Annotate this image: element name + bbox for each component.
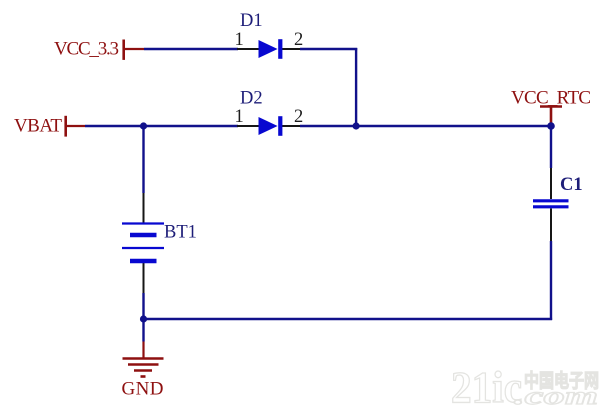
ground GND bbox=[122, 342, 164, 400]
junction node at branch/D2 output bbox=[353, 122, 360, 129]
diode D1 bbox=[237, 39, 300, 59]
diode D2 bbox=[237, 116, 300, 136]
svg-text:2: 2 bbox=[294, 107, 303, 127]
svg-text:D2: D2 bbox=[240, 88, 263, 108]
wire VBAT to D2 pin1 bbox=[85, 125, 238, 127]
svg-text:VCC_RTC: VCC_RTC bbox=[511, 87, 591, 108]
junction node VBAT/battery bbox=[140, 122, 147, 129]
power port VCC_3.3 bbox=[54, 39, 144, 60]
svg-text:BT1: BT1 bbox=[164, 223, 197, 243]
svg-text:21ic: 21ic bbox=[451, 363, 522, 408]
wire BT1 pin down to bottom rail bbox=[142, 293, 144, 319]
wire GND stub (blue part) bbox=[142, 319, 144, 342]
wire D2 pin2 to VCC_RTC node bbox=[300, 125, 551, 127]
wire bottom rail bbox=[144, 318, 553, 320]
junction node bottom rail / GND bbox=[140, 315, 147, 322]
wire VBAT node down to BT1 pin bbox=[142, 126, 144, 193]
battery BT1 bbox=[122, 193, 164, 293]
wire D1 pin2 to branch corner bbox=[300, 48, 357, 50]
svg-text:VBAT: VBAT bbox=[14, 116, 62, 137]
svg-text:GND: GND bbox=[122, 378, 164, 399]
svg-text:1: 1 bbox=[235, 107, 244, 127]
power port VCC_RTC bbox=[511, 87, 591, 124]
svg-text:C1: C1 bbox=[560, 175, 583, 195]
junction node VCC_RTC/C1 bbox=[547, 122, 555, 130]
wire VCC_RTC node down to C1 pin bbox=[550, 126, 552, 168]
wire branch vertical down to node at D2 output bbox=[355, 48, 357, 126]
wire VCC_3.3 to D1 pin1 bbox=[144, 48, 238, 50]
svg-text:2: 2 bbox=[294, 30, 303, 50]
svg-text:D1: D1 bbox=[240, 11, 263, 31]
svg-text:1: 1 bbox=[235, 30, 244, 50]
capacitor C1 bbox=[533, 168, 569, 241]
svg-text:VCC_3.3: VCC_3.3 bbox=[54, 39, 119, 60]
power port VBAT bbox=[14, 116, 85, 137]
svg-text:.com: .com bbox=[514, 383, 598, 408]
wire C1 pin down to bottom rail bbox=[550, 241, 552, 320]
watermark 21ic logo bbox=[451, 363, 599, 408]
